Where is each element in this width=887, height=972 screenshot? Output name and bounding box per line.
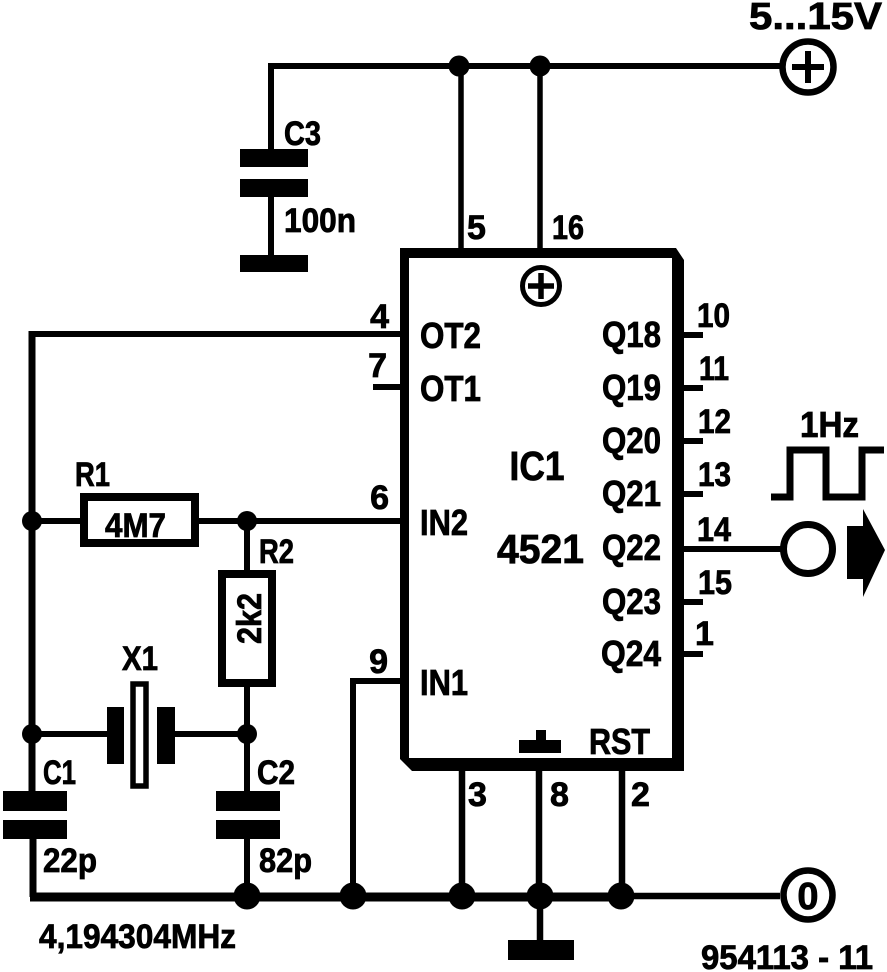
svg-text:IN2: IN2 (420, 502, 468, 543)
wire C2 top (244, 734, 250, 794)
svg-text:R2: R2 (259, 533, 294, 571)
capacitor C2 (216, 791, 280, 839)
svg-text:RST: RST (589, 721, 650, 762)
IC1 body (400, 248, 684, 771)
wire bottom ground rail (30, 893, 621, 902)
node junction left rail R1 (22, 511, 42, 531)
waveform symbol (771, 450, 884, 497)
node junction left rail crystal (22, 724, 42, 744)
wire pin 9 (353, 681, 404, 897)
svg-text:X1: X1 (122, 640, 158, 678)
svg-text:10: 10 (697, 297, 730, 335)
wire left vertical rail (29, 331, 36, 794)
svg-text:0: 0 (797, 876, 818, 918)
svg-text:OT2: OT2 (420, 315, 481, 356)
svg-text:Q21: Q21 (602, 473, 661, 514)
wire pin 8 (536, 771, 543, 897)
ground below C3 (240, 255, 308, 272)
svg-text:15: 15 (698, 564, 732, 602)
pin stub 12 (684, 438, 703, 444)
wire pin 14 output (684, 546, 781, 552)
wire pin 5 drop (458, 66, 464, 252)
svg-text:6: 6 (370, 479, 389, 517)
svg-text:12: 12 (698, 403, 731, 441)
pin stub 10 (684, 332, 703, 338)
wire C3 top drop (268, 63, 274, 152)
IC reset bar symbol (519, 730, 561, 753)
svg-text:82p: 82p (259, 842, 312, 880)
power terminal + (783, 42, 834, 93)
node junction rail C2 (234, 883, 261, 910)
capacitor C3 (240, 149, 308, 197)
node junction rail pin9 (340, 883, 367, 910)
svg-text:14: 14 (697, 511, 731, 549)
wire R1 right to pin 6 (195, 518, 404, 524)
capacitor C1 (3, 791, 67, 839)
node junction rail pin3 (449, 883, 476, 910)
node junction rail pin2 (608, 883, 635, 910)
node junction top pin16 (530, 56, 551, 77)
crystal X1 (107, 684, 175, 786)
svg-text:4M7: 4M7 (105, 507, 166, 545)
wire C2 bottom (244, 839, 250, 897)
svg-text:4: 4 (370, 298, 389, 336)
svg-text:Q20: Q20 (602, 420, 661, 461)
svg-text:9: 9 (369, 643, 388, 681)
wire R2 top (244, 521, 250, 574)
pin stub 15 (684, 599, 703, 605)
svg-text:C1: C1 (43, 754, 76, 792)
ground terminal 0 (784, 871, 833, 920)
svg-text:Q22: Q22 (602, 527, 661, 568)
output terminal circle (784, 525, 833, 574)
IC internal plus symbol (523, 268, 560, 305)
wire pin 16 drop (537, 66, 543, 252)
svg-text:Q24: Q24 (601, 633, 661, 674)
wire pin 2 (619, 771, 626, 897)
svg-text:16: 16 (552, 209, 584, 247)
node junction R1 R2 (237, 511, 257, 531)
wire R2 bottom (244, 683, 250, 734)
wire top supply rail (271, 63, 780, 69)
svg-text:13: 13 (698, 456, 731, 494)
svg-text:IN1: IN1 (420, 662, 468, 703)
svg-text:3: 3 (468, 776, 487, 814)
svg-text:2k2: 2k2 (231, 593, 269, 644)
svg-text:Q18: Q18 (602, 314, 661, 355)
svg-text:11: 11 (699, 350, 729, 388)
svg-text:OT1: OT1 (420, 368, 481, 409)
svg-text:Q19: Q19 (602, 367, 661, 408)
wire C1 bottom (30, 839, 37, 897)
svg-text:C3: C3 (284, 115, 321, 153)
wire C3 bottom to ground (268, 194, 274, 258)
pin stub 11 (684, 385, 703, 391)
svg-text:C2: C2 (257, 754, 295, 792)
svg-text:1: 1 (695, 615, 714, 653)
resistor R2 (222, 574, 272, 683)
output arrow (847, 509, 885, 597)
wire pin 3 (459, 771, 466, 897)
svg-text:4,194304MHz: 4,194304MHz (39, 918, 236, 956)
wire crystal right (175, 731, 247, 737)
svg-text:1Hz: 1Hz (800, 404, 859, 445)
svg-text:7: 7 (368, 347, 387, 385)
svg-text:2: 2 (631, 776, 650, 814)
svg-text:5: 5 (467, 209, 486, 247)
svg-text:R1: R1 (75, 456, 110, 494)
resistor R1 (84, 497, 195, 543)
wire crystal left (32, 731, 107, 737)
pin stub 13 (684, 491, 703, 497)
svg-text:8: 8 (550, 776, 569, 814)
svg-text:Q23: Q23 (602, 581, 661, 622)
svg-text:22p: 22p (43, 842, 97, 880)
pin stub 1 (684, 651, 703, 657)
svg-text:100n: 100n (284, 202, 356, 240)
wire ground stub (537, 894, 544, 941)
svg-text:5...15V: 5...15V (749, 0, 883, 38)
wire pin 4 to left rail (29, 331, 404, 337)
wire R1 left (32, 518, 84, 524)
pin 7 stub (373, 384, 404, 390)
svg-text:4521: 4521 (497, 526, 584, 572)
node junction crystal R2 C2 (237, 724, 257, 744)
node junction top pin5 (449, 56, 470, 77)
node junction rail pin8 (527, 883, 554, 910)
svg-text:954113 - 11: 954113 - 11 (701, 939, 873, 972)
ground symbol (508, 940, 574, 960)
svg-text:IC1: IC1 (510, 443, 565, 489)
